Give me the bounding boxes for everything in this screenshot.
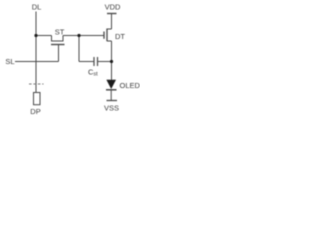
svg-text:OLED: OLED — [120, 81, 141, 90]
svg-text:DL: DL — [32, 3, 42, 12]
svg-text:VSS: VSS — [104, 104, 119, 113]
svg-text:DT: DT — [115, 32, 125, 41]
svg-text:VDD: VDD — [105, 3, 121, 12]
svg-text:DP: DP — [30, 107, 40, 116]
svg-text:Cst: Cst — [88, 68, 98, 78]
svg-text:SL: SL — [5, 57, 14, 66]
